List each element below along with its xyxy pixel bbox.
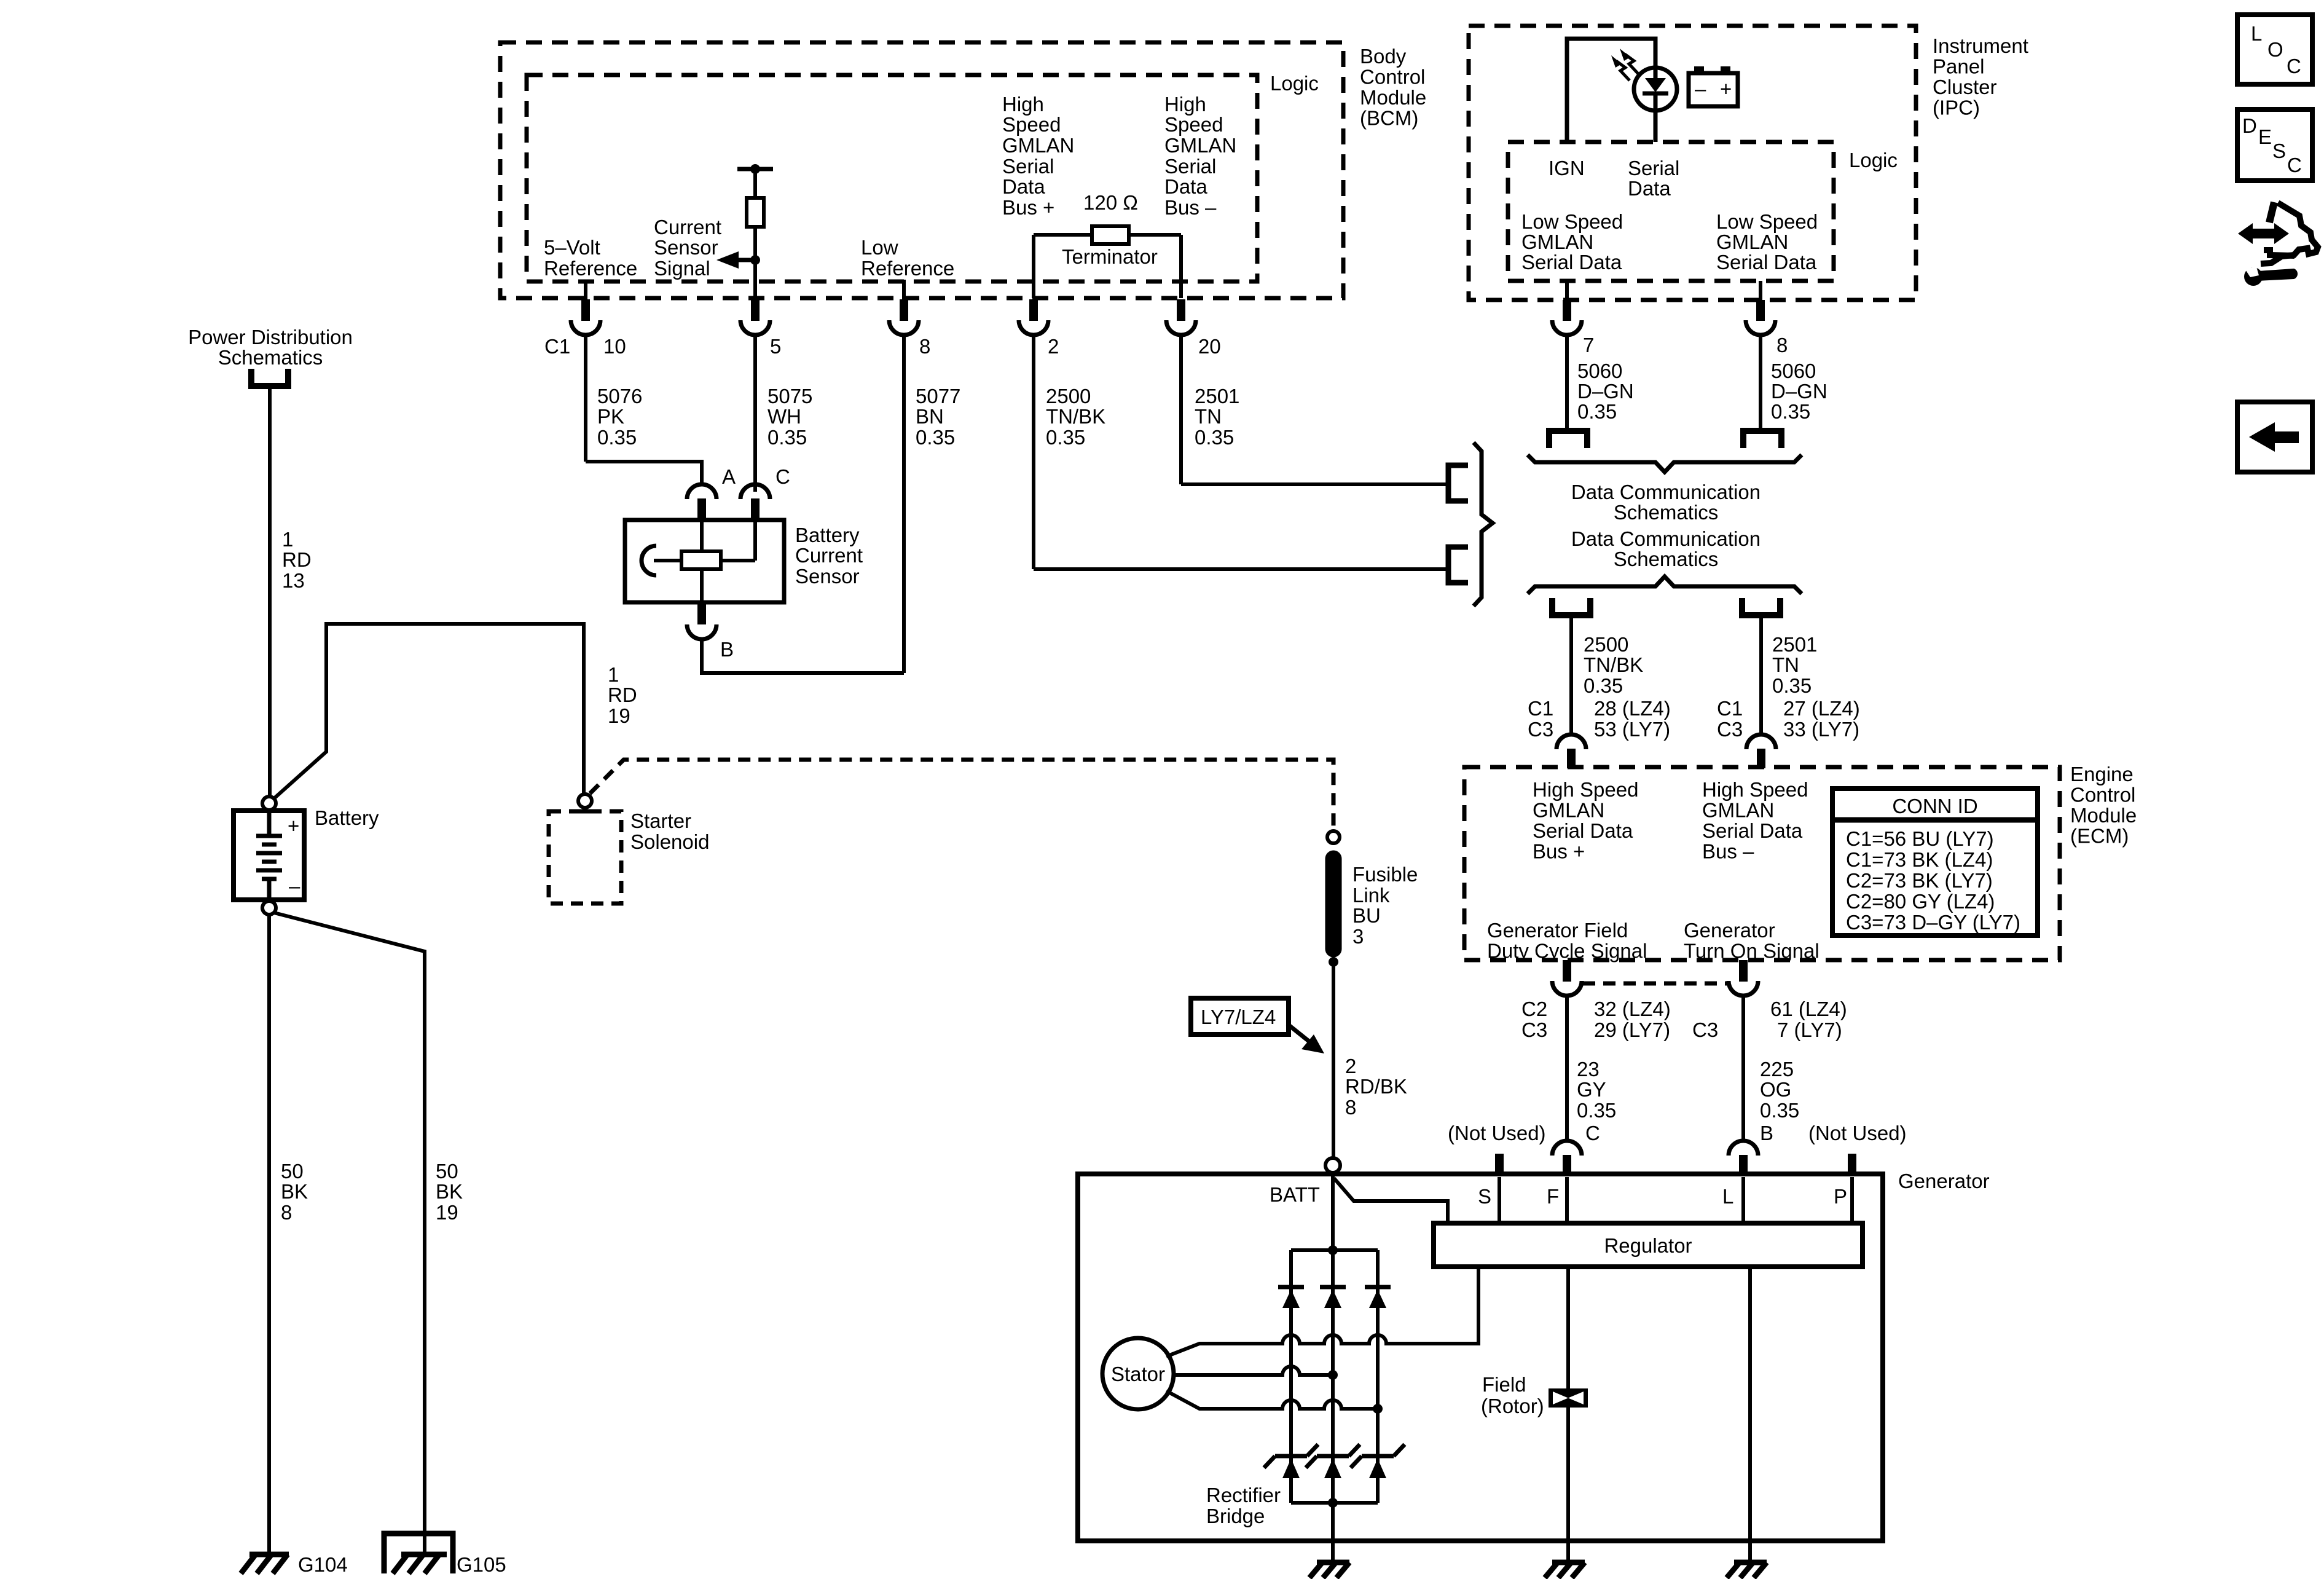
svg-text:C3=73 D–GY (LY7): C3=73 D–GY (LY7) — [1846, 911, 2020, 934]
svg-text:33 (LY7): 33 (LY7) — [1783, 718, 1859, 741]
resistor current-sensor pull-up inside BCM — [737, 167, 773, 171]
wire BATT main vertical — [1331, 1173, 1335, 1541]
svg-text:(Rotor): (Rotor) — [1481, 1395, 1544, 1417]
svg-text:L: L — [2251, 22, 2262, 45]
svg-text:S: S — [2272, 140, 2286, 162]
ground L circuit — [1727, 1562, 1767, 1578]
svg-text:Reference: Reference — [544, 257, 637, 280]
svg-text:Current: Current — [654, 216, 721, 238]
off-page connector foot (IPC pin7 wire) — [1549, 431, 1587, 448]
wire 1 RD 19 to starter solenoid — [274, 624, 584, 798]
off-page connector foot (to ECM pin, left) — [1552, 598, 1590, 615]
svg-text:Starter: Starter — [630, 809, 691, 832]
svg-text:Logic: Logic — [1270, 72, 1319, 95]
svg-text:+: + — [288, 814, 299, 837]
svg-text:Terminator: Terminator — [1062, 245, 1158, 268]
svg-text:2500: 2500 — [1046, 385, 1091, 408]
svg-text:Turn On Signal: Turn On Signal — [1684, 940, 1820, 963]
svg-text:0.35: 0.35 — [1772, 674, 1812, 697]
sensor element vertical wire — [700, 520, 704, 602]
svg-text:Logic: Logic — [1849, 149, 1898, 171]
connector pin into ECM (bus -) — [1746, 734, 1776, 749]
connector pin C1-10 of BCM — [581, 299, 590, 321]
svg-text:Cluster: Cluster — [1933, 76, 1997, 98]
svg-text:Generator: Generator — [1684, 919, 1775, 942]
svg-text:Regulator: Regulator — [1604, 1234, 1692, 1257]
generator box — [1078, 1174, 1883, 1541]
svg-text:TN/BK: TN/BK — [1584, 653, 1643, 676]
svg-text:Bridge: Bridge — [1206, 1505, 1265, 1527]
Body Control Module BCM outer dashed box — [500, 42, 1343, 298]
zener diode lower middle — [1317, 1454, 1349, 1459]
svg-text:BK: BK — [436, 1180, 463, 1203]
svg-text:C: C — [775, 465, 790, 488]
svg-text:B: B — [1760, 1122, 1773, 1144]
svg-text:Bus +: Bus + — [1533, 840, 1585, 863]
diode upper right — [1365, 1285, 1391, 1290]
wire serial data from LED to logic — [1654, 111, 1658, 142]
svg-text:Link: Link — [1352, 884, 1390, 907]
svg-text:GMLAN: GMLAN — [1702, 799, 1774, 822]
arrow from LY7/LZ4 flag — [1287, 1024, 1312, 1044]
ground generator main — [1309, 1562, 1349, 1578]
svg-text:(BCM): (BCM) — [1360, 107, 1418, 130]
svg-text:13: 13 — [282, 569, 305, 592]
svg-text:C3: C3 — [1692, 1018, 1718, 1041]
junction dot phase 3 — [1373, 1404, 1383, 1414]
svg-text:50: 50 — [436, 1160, 458, 1183]
svg-text:C3: C3 — [1528, 718, 1553, 741]
svg-text:0.35: 0.35 — [767, 426, 807, 449]
svg-text:High Speed: High Speed — [1702, 778, 1808, 801]
svg-text:Bus –: Bus – — [1702, 840, 1754, 863]
svg-text:Low Speed: Low Speed — [1716, 210, 1818, 233]
svg-text:C1: C1 — [544, 335, 570, 358]
rectifier right branch — [1376, 1250, 1380, 1503]
svg-text:C1: C1 — [1717, 697, 1743, 720]
svg-text:8: 8 — [281, 1201, 292, 1224]
battery current sensor box — [625, 520, 784, 602]
svg-text:Body: Body — [1360, 45, 1407, 68]
ring terminal BATT junction — [1325, 1158, 1340, 1173]
connector pin out of ECM (field duty cycle) — [1563, 960, 1571, 982]
regulator box — [1434, 1223, 1863, 1267]
svg-text:0.35: 0.35 — [1577, 1099, 1616, 1122]
wire 50 BK 8 to ground — [267, 915, 271, 1553]
wire 2500 TN/BK to ECM — [1569, 615, 1573, 734]
label LY7/LZ4 flag — [1191, 998, 1289, 1034]
svg-text:C2=80 GY (LZ4): C2=80 GY (LZ4) — [1846, 890, 1995, 913]
svg-text:GMLAN: GMLAN — [1533, 799, 1604, 822]
svg-text:Field: Field — [1482, 1373, 1526, 1396]
icon car with double arrow and wrench — [2261, 202, 2318, 264]
svg-text:Serial: Serial — [1002, 155, 1054, 178]
generator terminal P bar — [1848, 1154, 1856, 1175]
dashed connector line between ECM output pins — [1583, 982, 1728, 986]
svg-text:Signal: Signal — [654, 257, 710, 280]
ring terminal starter solenoid — [578, 794, 592, 808]
svg-text:27 (LZ4): 27 (LZ4) — [1783, 697, 1860, 720]
wire IGN loop to indicator — [1567, 39, 1655, 142]
svg-text:GMLAN: GMLAN — [1521, 230, 1593, 253]
wire P to regulator — [1850, 1177, 1854, 1223]
svg-text:–: – — [1695, 77, 1706, 100]
svg-text:225: 225 — [1760, 1058, 1794, 1081]
zener diode lower right — [1362, 1454, 1394, 1459]
svg-text:5: 5 — [770, 335, 781, 358]
wire S to regulator — [1498, 1177, 1501, 1223]
svg-text:(ECM): (ECM) — [2070, 825, 2129, 848]
brace lower data communication (mirrored) — [1528, 577, 1802, 594]
brace right-pointing to data communication schematics — [1474, 443, 1493, 606]
wire pin10 inside BCM — [584, 280, 587, 299]
Instrument Panel Cluster IPC outer dashed box — [1469, 26, 1916, 300]
diode upper middle — [1320, 1285, 1346, 1290]
svg-text:P: P — [1834, 1185, 1847, 1208]
rectifier left branch — [1289, 1250, 1293, 1503]
svg-text:2501: 2501 — [1195, 385, 1239, 408]
battery icon inside IPC — [1689, 73, 1738, 106]
svg-text:GMLAN: GMLAN — [1164, 134, 1236, 157]
diode upper left — [1278, 1285, 1304, 1290]
svg-text:120 Ω: 120 Ω — [1083, 191, 1138, 214]
wire 1 RD 13 battery positive — [268, 386, 272, 797]
svg-text:Speed: Speed — [1164, 113, 1223, 136]
svg-text:Generator: Generator — [1898, 1170, 1990, 1192]
svg-text:S: S — [1478, 1185, 1491, 1208]
wire 50 BK 19 branch to ground — [274, 913, 425, 1553]
svg-text:Battery: Battery — [315, 806, 379, 829]
wire BATT to regulator (sense) — [1334, 1178, 1448, 1223]
svg-text:Instrument: Instrument — [1933, 34, 2028, 57]
svg-text:Fusible: Fusible — [1352, 863, 1418, 886]
Engine Control Module ECM dashed box — [1464, 767, 2060, 960]
svg-text:Serial: Serial — [1628, 157, 1679, 179]
CONN ID table box — [1832, 789, 2038, 935]
svg-text:High: High — [1164, 93, 1206, 116]
generator terminal B dome and L bar — [1729, 1141, 1758, 1156]
svg-text:–: – — [289, 875, 300, 897]
wire 5077 BN from B to BCM pin 8 — [702, 639, 904, 673]
ground field — [1545, 1562, 1585, 1578]
svg-text:Serial Data: Serial Data — [1521, 251, 1622, 274]
svg-text:2500: 2500 — [1584, 633, 1628, 656]
svg-text:5077: 5077 — [916, 385, 960, 408]
svg-text:Data: Data — [1628, 177, 1671, 200]
svg-text:G104: G104 — [298, 1553, 348, 1576]
svg-text:5–Volt: 5–Volt — [544, 236, 600, 259]
svg-text:5075: 5075 — [767, 385, 812, 408]
svg-text:Power Distribution: Power Distribution — [188, 326, 353, 348]
icon wrench — [2244, 267, 2263, 286]
wire 2 RD/BK 8 to generator BATT — [1332, 962, 1335, 1158]
wire BATT branch below box to ground — [1331, 1541, 1335, 1562]
stator phase 1 wire with hops — [1166, 1267, 1478, 1357]
junction dot phase 2 — [1328, 1370, 1338, 1380]
icon DESC box — [2237, 109, 2312, 181]
svg-text:Duty Cycle Signal: Duty Cycle Signal — [1487, 940, 1647, 963]
svg-text:(Not Used): (Not Used) — [1448, 1122, 1546, 1144]
svg-text:1: 1 — [608, 663, 619, 686]
svg-text:Control: Control — [2070, 784, 2135, 806]
icon back arrow box — [2237, 402, 2312, 472]
connector B of battery current sensor — [697, 602, 706, 624]
svg-text:CONN ID: CONN ID — [1892, 795, 1977, 817]
off-page connector foot (power distribution) — [251, 369, 288, 386]
svg-text:O: O — [2267, 38, 2283, 61]
svg-text:Schematics: Schematics — [1614, 548, 1719, 570]
svg-text:IGN: IGN — [1549, 157, 1585, 179]
svg-text:B: B — [720, 638, 734, 661]
svg-text:C: C — [1585, 1122, 1600, 1144]
svg-text:19: 19 — [608, 704, 630, 727]
svg-text:Sensor: Sensor — [795, 565, 860, 588]
wire 2501 TN to ECM — [1759, 615, 1763, 734]
svg-text:0.35: 0.35 — [1046, 426, 1085, 449]
svg-text:Bus –: Bus – — [1164, 196, 1217, 219]
svg-text:C2: C2 — [1521, 998, 1547, 1020]
svg-text:C1=56 BU (LY7): C1=56 BU (LY7) — [1846, 827, 1994, 850]
rectifier bottom bus — [1291, 1501, 1378, 1505]
svg-text:L: L — [1722, 1185, 1733, 1208]
svg-text:C2=73 BK (LY7): C2=73 BK (LY7) — [1846, 869, 1993, 892]
svg-text:GMLAN: GMLAN — [1716, 230, 1788, 253]
wire 2500 TN/BK from BCM pin 2 to inline connector — [1034, 567, 1446, 571]
svg-text:7: 7 — [1583, 334, 1594, 356]
rectifier top bus — [1291, 1248, 1378, 1252]
svg-text:D–GN: D–GN — [1577, 380, 1634, 403]
svg-text:Reference: Reference — [861, 257, 954, 280]
junction dot below fusible link — [1329, 957, 1338, 967]
node arrow current sensor signal — [750, 255, 760, 265]
wire L lamp to ground — [1748, 1267, 1752, 1541]
dashed wire from starter solenoid to fusible link — [590, 760, 1333, 830]
svg-text:50: 50 — [281, 1160, 304, 1183]
svg-text:Schematics: Schematics — [1614, 501, 1719, 524]
wire pin8 inside BCM — [902, 280, 906, 299]
terminator loop wires — [1034, 233, 1092, 237]
svg-text:WH: WH — [767, 405, 801, 428]
svg-text:Low Speed: Low Speed — [1521, 210, 1623, 233]
svg-text:61 (LZ4): 61 (LZ4) — [1770, 998, 1847, 1020]
wire 2501 TN from BCM pin 20 to inline connector — [1181, 482, 1446, 486]
svg-text:A: A — [722, 465, 736, 488]
svg-text:Schematics: Schematics — [218, 346, 323, 369]
LED light arrows — [1616, 54, 1638, 81]
svg-text:C3: C3 — [1717, 718, 1743, 741]
stator phase 3 wire — [1166, 1391, 1378, 1409]
svg-text:Control: Control — [1360, 66, 1425, 89]
resistor terminator 120 ohm — [1092, 226, 1129, 244]
stator circle — [1102, 1338, 1174, 1409]
svg-text:0.35: 0.35 — [1577, 400, 1617, 423]
svg-text:Module: Module — [2070, 804, 2137, 827]
wire L to regulator — [1741, 1177, 1745, 1223]
svg-text:High: High — [1002, 93, 1044, 116]
svg-text:RD: RD — [282, 548, 312, 571]
svg-text:Low: Low — [861, 236, 898, 259]
svg-text:Data Communication: Data Communication — [1571, 527, 1761, 550]
svg-text:28 (LZ4): 28 (LZ4) — [1594, 697, 1671, 720]
svg-text:BK: BK — [281, 1180, 308, 1203]
svg-text:5060: 5060 — [1771, 360, 1816, 382]
svg-text:(Not Used): (Not Used) — [1808, 1122, 1907, 1144]
svg-text:C1=73 BK (LZ4): C1=73 BK (LZ4) — [1846, 848, 1993, 871]
svg-text:(IPC): (IPC) — [1933, 96, 1980, 119]
svg-text:+: + — [1720, 77, 1732, 100]
clamp jaw symbol inside sensor — [642, 546, 656, 575]
svg-text:Rectifier: Rectifier — [1206, 1484, 1281, 1506]
svg-text:Serial Data: Serial Data — [1533, 819, 1633, 842]
svg-text:Data Communication: Data Communication — [1571, 481, 1761, 503]
svg-text:TN: TN — [1772, 653, 1799, 676]
svg-text:Stator: Stator — [1111, 1363, 1165, 1385]
svg-text:8: 8 — [1776, 334, 1788, 356]
junction dot rectifier bottom — [1328, 1498, 1338, 1508]
ring terminal battery negative — [262, 901, 276, 915]
svg-text:8: 8 — [919, 335, 930, 358]
svg-text:Current: Current — [795, 544, 863, 567]
svg-text:Sensor: Sensor — [654, 236, 718, 259]
connector pin out of ECM (turn on) — [1739, 960, 1748, 982]
connector pin 5 of BCM — [751, 299, 760, 321]
BCM Logic inner dashed box — [527, 75, 1257, 282]
svg-text:Engine: Engine — [2070, 763, 2134, 786]
svg-text:2: 2 — [1345, 1055, 1356, 1077]
svg-text:8: 8 — [1345, 1096, 1356, 1119]
connector A of battery current sensor — [687, 484, 716, 499]
svg-text:0.35: 0.35 — [1195, 426, 1234, 449]
connector pin 8 of BCM — [900, 299, 908, 321]
svg-text:5076: 5076 — [597, 385, 642, 408]
ground G104 — [241, 1554, 289, 1573]
wire F to regulator — [1565, 1177, 1569, 1223]
svg-text:RD/BK: RD/BK — [1345, 1075, 1407, 1098]
starter solenoid dashed box — [549, 811, 621, 904]
wire field from regulator — [1566, 1267, 1570, 1541]
off-page connector foot (to ECM pin, right) — [1742, 598, 1780, 615]
svg-text:E: E — [2258, 125, 2272, 148]
svg-text:32 (LZ4): 32 (LZ4) — [1594, 998, 1671, 1020]
svg-text:TN/BK: TN/BK — [1046, 405, 1105, 428]
svg-text:0.35: 0.35 — [1771, 400, 1810, 423]
zener diode lower left — [1275, 1454, 1307, 1459]
svg-text:10: 10 — [603, 335, 626, 358]
svg-text:C: C — [2287, 154, 2302, 176]
svg-text:1: 1 — [282, 528, 293, 551]
svg-text:0.35: 0.35 — [1584, 674, 1623, 697]
svg-text:D: D — [2242, 114, 2257, 137]
icon LOC box — [2237, 15, 2312, 84]
connector pin into ECM (bus +) — [1557, 734, 1586, 749]
svg-text:BATT: BATT — [1270, 1183, 1320, 1206]
svg-text:Serial Data: Serial Data — [1716, 251, 1817, 274]
ring terminal battery positive — [262, 797, 276, 810]
svg-text:G105: G105 — [457, 1553, 506, 1576]
svg-text:F: F — [1547, 1185, 1559, 1208]
svg-text:3: 3 — [1352, 925, 1364, 948]
connector pin 20 of BCM — [1177, 299, 1185, 321]
svg-text:Data: Data — [1002, 175, 1045, 198]
svg-text:Serial: Serial — [1164, 155, 1216, 178]
svg-text:BN: BN — [916, 405, 944, 428]
svg-text:PK: PK — [597, 405, 624, 428]
svg-text:RD: RD — [608, 683, 637, 706]
svg-text:GY: GY — [1577, 1078, 1606, 1101]
IPC Logic inner dashed box — [1508, 142, 1834, 281]
svg-text:20: 20 — [1198, 335, 1221, 358]
svg-text:29 (LY7): 29 (LY7) — [1594, 1018, 1670, 1041]
brace upper data communication — [1528, 455, 1802, 472]
svg-text:53 (LY7): 53 (LY7) — [1594, 718, 1670, 741]
generator terminal C dome and F bar — [1552, 1141, 1582, 1156]
battery B1 — [234, 811, 304, 900]
generator terminal S bar — [1495, 1154, 1504, 1175]
svg-text:Solenoid: Solenoid — [630, 830, 709, 853]
svg-text:0.35: 0.35 — [1760, 1099, 1799, 1122]
svg-text:19: 19 — [436, 1201, 458, 1224]
stator phase 2 wire — [1174, 1366, 1333, 1375]
svg-text:C1: C1 — [1528, 697, 1553, 720]
svg-text:Module: Module — [1360, 86, 1426, 109]
svg-text:Speed: Speed — [1002, 113, 1061, 136]
indicator LED lamp — [1634, 68, 1677, 111]
fusible link BU 3 — [1325, 859, 1342, 949]
svg-text:D–GN: D–GN — [1771, 380, 1827, 403]
svg-text:GMLAN: GMLAN — [1002, 134, 1074, 157]
svg-text:BU: BU — [1352, 904, 1381, 927]
wire 5076 PK to battery current sensor A — [586, 462, 702, 484]
svg-text:Generator Field: Generator Field — [1487, 919, 1628, 942]
svg-text:LY7/LZ4: LY7/LZ4 — [1201, 1006, 1276, 1028]
junction dot rectifier top — [1328, 1245, 1338, 1255]
connector C of battery current sensor — [740, 484, 770, 499]
svg-text:High Speed: High Speed — [1533, 778, 1638, 801]
svg-text:Panel: Panel — [1933, 55, 1984, 78]
svg-text:2501: 2501 — [1772, 633, 1817, 656]
svg-text:5060: 5060 — [1577, 360, 1622, 382]
svg-text:Serial Data: Serial Data — [1702, 819, 1803, 842]
svg-text:Data: Data — [1164, 175, 1207, 198]
connector pin 8 of IPC — [1759, 281, 1762, 300]
svg-text:7 (LY7): 7 (LY7) — [1777, 1018, 1842, 1041]
svg-text:C: C — [2287, 55, 2301, 77]
resistor sense element — [681, 551, 721, 569]
connector pin 2 of BCM — [1029, 299, 1038, 321]
svg-text:OG: OG — [1760, 1078, 1791, 1101]
svg-text:Battery: Battery — [795, 524, 860, 546]
svg-text:C3: C3 — [1521, 1018, 1547, 1041]
ring terminal fusible link top — [1327, 831, 1340, 843]
svg-text:TN: TN — [1195, 405, 1222, 428]
svg-text:23: 23 — [1577, 1058, 1600, 1081]
svg-text:0.35: 0.35 — [916, 426, 955, 449]
field rotor coil — [1549, 1388, 1588, 1408]
svg-text:2: 2 — [1048, 335, 1059, 358]
svg-text:Bus +: Bus + — [1002, 196, 1054, 219]
ground G105 — [384, 1534, 453, 1573]
svg-text:0.35: 0.35 — [597, 426, 637, 449]
off-page connector foot (IPC pin8 wire) — [1743, 431, 1781, 448]
inline connector symbol lower (2500) — [1448, 547, 1468, 583]
connector pin 7 of IPC — [1565, 281, 1569, 300]
inline connector symbol upper (2501) — [1448, 465, 1468, 501]
